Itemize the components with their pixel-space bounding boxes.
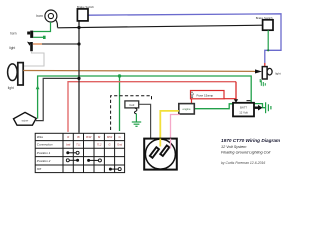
ground: tail light ground [260,79,265,86]
wire: pink engine to key switch [171,115,180,149]
light switch SW2 [27,42,33,52]
svg-text:light: light [9,46,15,50]
switch position table [35,133,124,172]
wire: gray light switch to headlight [23,51,44,66]
tail light LP2 [262,67,272,79]
wire: pink inside switch [170,139,172,149]
wire: black vertical from front brake switch to table [78,21,80,133]
svg-text:engine: engine [182,107,191,111]
coil HT curl [134,108,136,114]
horn HN [45,10,57,22]
wire: green engine to battery/ground [194,104,233,109]
rear brake switch SW4 [263,20,273,30]
wire: green bus [38,76,252,119]
svg-text:Coil: Coil [129,103,134,107]
wire: blue bus brake light [88,14,281,64]
position 1 contacts [66,151,79,154]
ground: battery ground (right facing) [266,102,271,113]
off row contacts [109,168,121,171]
svg-text:TL1: TL1 [76,143,81,147]
wire: yellow inside switch [159,139,161,147]
wire: green horn button stub [33,36,43,38]
wire: black light switch to node [42,43,79,45]
engine box [179,104,195,114]
svg-text:light: light [275,72,281,76]
svg-text:B/W: B/W [107,135,113,139]
wire: red fuse output to battery [224,98,236,100]
ignition key switch [144,139,177,170]
wire: green down to table col G [119,76,121,131]
svg-text:Brake Switch: Brake Switch [77,5,94,9]
svg-text:G: G [119,135,121,139]
svg-text:G: G [108,143,110,147]
svg-text:horn: horn [10,32,17,36]
svg-text:Br: Br [98,135,101,139]
position 2 contacts [66,159,101,162]
wire: horn to black bus [55,20,57,28]
arrow into battery [234,99,238,103]
key contact 2 [160,145,169,156]
svg-text:Floating Ground Lighting Coil: Floating Ground Lighting Coil [221,150,270,154]
wire: red bus [68,82,236,132]
svg-text:batt: batt [66,143,71,147]
wiper pentagon [14,112,37,125]
wire: black coil to key switch [139,104,151,138]
dashed engine boundary [111,96,152,130]
svg-text:horn: horn [36,14,43,18]
wire: green horn to horn button [33,22,50,32]
table wire headers [67,135,120,139]
svg-text:Bl: Bl [77,135,80,139]
terminal: green bullet connector [43,36,46,39]
svg-text:wiper: wiper [22,118,30,122]
svg-text:Position 2: Position 2 [37,159,51,163]
wire: red fuse to engine [191,99,193,105]
fuse F1 [190,91,224,99]
svg-text:12 Volt System: 12 Volt System [221,145,246,149]
svg-text:TL2: TL2 [97,143,102,147]
svg-text:Position 1: Position 1 [37,151,51,155]
svg-text:Wire: Wire [37,135,44,139]
headlight LP1 [8,63,24,85]
horn button SW1 [27,31,33,38]
wire: green from rear brake switch [267,30,269,50]
svg-text:Connection: Connection [37,143,53,147]
battery BATT [233,100,254,116]
wire: brown bus headlight to tail light [23,70,255,73]
ground: coil ground [132,114,141,127]
wire: red down to battery [235,82,237,100]
title block [221,138,280,165]
svg-text:by Curtis Foreman 12-6-2016: by Curtis Foreman 12-6-2016 [221,161,265,165]
wire: yellow engine to key switch [160,111,179,147]
wire: red segment into tail light [264,63,266,67]
svg-text:R: R [67,135,69,139]
arrow into tail light [255,69,262,73]
svg-text:Fuse 15amp: Fuse 15amp [197,93,214,97]
front brake switch SW3 [77,9,88,21]
coil box [125,101,139,108]
svg-text:1970 CT70 Wiring Diagram: 1970 CT70 Wiring Diagram [221,138,280,143]
node: green junction [118,74,121,77]
table row labels [37,135,53,171]
wire: green battery to ground [251,104,265,108]
svg-text:Brake Switch: Brake Switch [256,16,273,20]
svg-text:12 Volt: 12 Volt [239,111,248,115]
svg-text:BATT: BATT [240,105,247,109]
wire: black wiper loop [36,78,79,120]
svg-text:B/W: B/W [86,135,92,139]
svg-text:Gnd: Gnd [117,143,122,147]
node: green on blue [267,49,269,51]
table connection row [66,143,123,147]
key contact 1 [150,147,159,158]
node dots on black vertical [77,26,80,29]
arrow: battery negative to ground [255,106,259,108]
svg-text:light: light [8,86,14,90]
green arrow on left vertical [36,85,40,89]
wire: black bus handlebar y=27 [58,25,263,28]
wire: orange stub from light switch [33,43,42,45]
